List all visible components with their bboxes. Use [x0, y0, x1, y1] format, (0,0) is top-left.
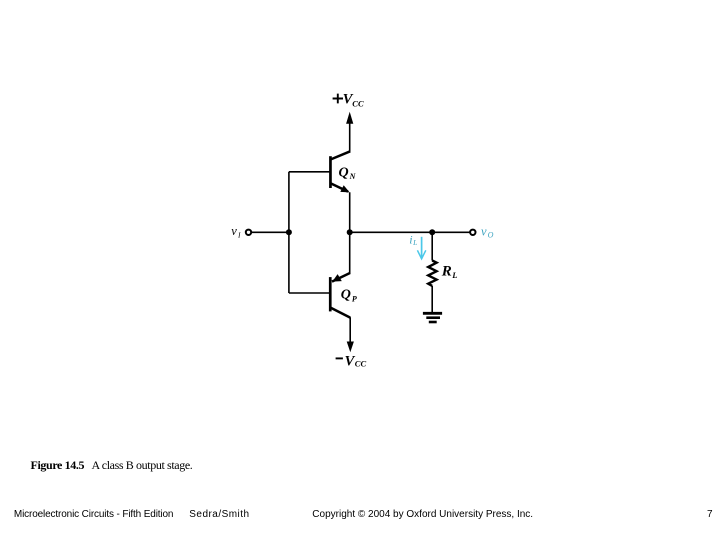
junction dot at RL branch: [429, 229, 435, 235]
footer right: page number: [707, 510, 713, 520]
ground symbol: [423, 313, 442, 322]
label Q_P: [341, 288, 357, 304]
wire RL top lead: [431, 232, 433, 260]
wire main vertical (QN emitter to QP emitter through output node): [349, 192, 351, 273]
footer: authors: [189, 510, 249, 520]
wire QN collector diagonal: [331, 151, 351, 159]
wire vI input lead: [251, 231, 289, 233]
wire QP emitter diagonal: [332, 273, 350, 282]
current iL arrow (cyan): [417, 237, 425, 259]
wire -Vcc lead (QP collector to -Vcc arrow): [349, 317, 351, 342]
figure caption bold part: [31, 459, 85, 471]
junction dot at output node on main vertical: [347, 229, 353, 235]
wire QN emitter diagonal: [331, 183, 349, 191]
svg-text:v: v: [481, 225, 487, 239]
wire QP collector diagonal: [331, 308, 351, 318]
transistor Q_P (PNP) base bar: [329, 277, 332, 311]
transistor Q_P emitter arrowhead: [332, 274, 342, 282]
svg-text:L: L: [412, 238, 417, 247]
transistor Q_N (NPN) base bar: [329, 156, 332, 188]
footer center: copyright: [312, 510, 533, 520]
wire +Vcc lead (QN collector to +Vcc arrow): [349, 122, 351, 152]
wire QP base lead: [289, 292, 331, 294]
wire RL bottom lead to ground: [431, 286, 433, 313]
svg-text:Q: Q: [341, 288, 351, 303]
label vI: [231, 224, 241, 240]
svg-text:CC: CC: [355, 358, 367, 368]
label +Vcc: [333, 91, 364, 108]
svg-text:O: O: [488, 231, 494, 240]
transistor Q_N emitter arrowhead: [340, 185, 349, 192]
resistor R_L zigzag: [428, 261, 436, 286]
node vO open terminal circle: [470, 230, 475, 235]
svg-text:L: L: [451, 270, 457, 280]
figure caption text: [92, 459, 193, 471]
label R_L: [441, 263, 458, 280]
svg-text:I: I: [237, 230, 241, 239]
wire left vertical (base bus): [288, 172, 290, 293]
footer left: book title: [14, 510, 173, 520]
svg-text:R: R: [441, 263, 452, 279]
junction dot at base bus / vI: [286, 229, 292, 235]
svg-text:N: N: [349, 172, 357, 181]
label Q_N: [339, 165, 357, 181]
wire output horizontal: [350, 231, 470, 233]
+Vcc arrowhead: [346, 112, 353, 124]
label vO (cyan): [481, 225, 494, 240]
node vI open terminal circle: [246, 230, 251, 235]
svg-text:P: P: [352, 294, 357, 303]
svg-text:CC: CC: [352, 99, 364, 109]
svg-text:Q: Q: [339, 165, 349, 180]
label iL (cyan): [409, 232, 417, 247]
-Vcc arrowhead: [347, 342, 354, 353]
label -Vcc: [336, 353, 367, 369]
svg-text:i: i: [409, 232, 412, 246]
svg-text:v: v: [231, 224, 237, 238]
wire QN base lead: [289, 171, 331, 173]
